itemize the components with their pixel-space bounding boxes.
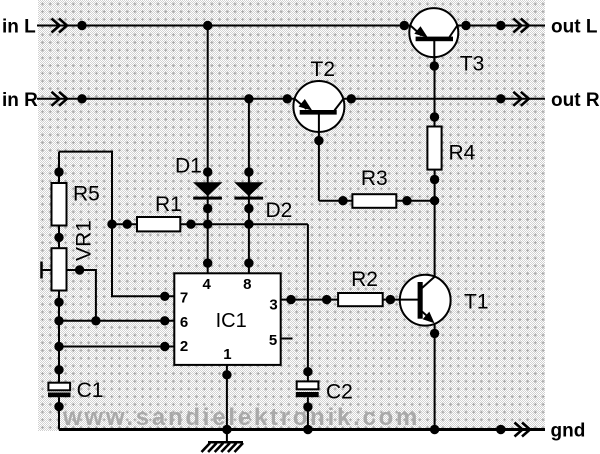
wire R3 row [319, 200, 435, 202]
capacitor C1 [48, 383, 71, 398]
wire R4 top lead [434, 57, 436, 127]
node C2 / gnd [303, 425, 312, 434]
wire C2 bottom to gnd [307, 397, 309, 429]
node gnd out [496, 425, 505, 434]
wire R1 row [112, 223, 308, 225]
wire R5-top to pin7 loop [59, 152, 174, 297]
transistor T3 [409, 8, 458, 66]
svg-text:www.sandielektronik.com: www.sandielektronik.com [62, 404, 420, 431]
node T1 / gnd [430, 425, 439, 434]
svg-text:C1: C1 [77, 379, 104, 402]
node C1 bottom [54, 402, 63, 411]
svg-text:8: 8 [243, 276, 251, 293]
node R1 row left [107, 220, 116, 229]
node VR1 bottom [54, 298, 63, 307]
node T3 emitter [400, 21, 409, 30]
svg-text:R5: R5 [73, 183, 100, 206]
wire R4 bottom to T1 collector [434, 170, 436, 277]
node in R / D2 [244, 94, 253, 103]
node pin6 [160, 316, 169, 325]
node C1 top [54, 365, 63, 374]
resistor R4 [427, 127, 441, 170]
resistor R2 [338, 293, 383, 306]
wire R5 to VR1 [58, 226, 60, 249]
chevron in L [52, 19, 68, 33]
svg-text:in R: in R [2, 90, 38, 111]
svg-text:3: 3 [269, 296, 277, 313]
svg-text:T2: T2 [311, 58, 336, 81]
svg-text:7: 7 [180, 289, 188, 306]
node R5 top [54, 167, 63, 176]
chevron out L [513, 19, 529, 33]
node D1 anode [203, 167, 212, 176]
potentiometer VR1 [52, 248, 67, 290]
diode D2 [234, 182, 263, 199]
svg-text:VR1: VR1 [73, 220, 96, 261]
svg-text:D2: D2 [266, 199, 293, 222]
node C2 top [303, 367, 312, 376]
chevron in R [52, 92, 68, 106]
node T2 base [314, 136, 323, 145]
svg-text:T1: T1 [464, 291, 489, 314]
node wiper / pin6 row [91, 316, 100, 325]
node R3 left lead [338, 196, 347, 205]
node pin1 / gnd [222, 425, 231, 434]
node in L 1 [77, 21, 86, 30]
svg-text:R1: R1 [155, 193, 182, 216]
svg-text:2: 2 [180, 338, 188, 355]
svg-text:in L: in L [2, 17, 36, 38]
node R3 / R4 junction [430, 196, 439, 205]
node pin7 [160, 292, 169, 301]
node pin8 [244, 258, 253, 267]
node C2 bottom [303, 402, 312, 411]
svg-text:4: 4 [203, 276, 212, 293]
wire VR1 bottom rail to C1 [58, 291, 60, 383]
wire node to C2 [307, 224, 309, 381]
resistor R5 [52, 183, 67, 226]
node R2 left lead [322, 295, 331, 304]
svg-text:5: 5 [269, 332, 277, 349]
wire pin2 row [59, 346, 174, 348]
wire in R rail [37, 98, 545, 100]
wire gnd rail [59, 428, 545, 431]
wire pin1 to ground [226, 365, 228, 442]
wire R5 top lead [58, 152, 60, 183]
transistor T1 [400, 275, 451, 326]
op-amp IC1 box [174, 273, 280, 365]
node T2 emitter [283, 94, 292, 103]
node R4 top lead [430, 112, 439, 121]
wire pin5 stub [281, 338, 293, 340]
node T1 emitter [430, 329, 439, 338]
node rail pin6 [54, 316, 63, 325]
node pin4 [203, 258, 212, 267]
capacitor C2 [296, 381, 319, 397]
svg-text:out L: out L [551, 17, 598, 38]
wire C1 bottom to gnd [58, 397, 60, 429]
node T2 collector [347, 94, 356, 103]
svg-text:T3: T3 [460, 53, 485, 76]
svg-text:gnd: gnd [551, 421, 586, 442]
node pin1 lead [222, 370, 231, 379]
node in R 1 [77, 94, 86, 103]
resistor R3 [352, 194, 396, 208]
wire D2 vertical [248, 99, 250, 273]
wire pin6 row [59, 320, 174, 322]
svg-text:R3: R3 [361, 167, 388, 190]
svg-text:D1: D1 [175, 155, 202, 178]
node R1 right lead [186, 220, 195, 229]
node D1 / R1 row [203, 220, 212, 229]
node R3 right lead [402, 196, 411, 205]
node pin3 [286, 295, 295, 304]
svg-text:1: 1 [223, 346, 231, 363]
resistor R1 [137, 217, 180, 231]
node T3 base [430, 61, 439, 70]
wire pin3 / R2 row [281, 299, 400, 301]
wire in L rail [37, 25, 545, 27]
node out L [496, 21, 505, 30]
chevron out R [513, 92, 529, 106]
VR1 wiper T mark [40, 262, 43, 279]
node D2 cathode [244, 204, 253, 213]
svg-text:6: 6 [180, 314, 188, 331]
svg-text:C2: C2 [326, 380, 353, 403]
node pin2 [160, 342, 169, 351]
node in L / D1 [203, 21, 212, 30]
node R5 bottom [54, 233, 63, 242]
wire VR1 wiper to pin6 row [67, 270, 96, 321]
ground [202, 442, 244, 452]
node D2 / R1 row [244, 220, 253, 229]
transistor T2 [293, 81, 344, 201]
node R2 right lead [386, 295, 395, 304]
node R1 left lead [123, 220, 132, 229]
node D1 cathode [203, 204, 212, 213]
svg-text:out R: out R [551, 90, 600, 111]
svg-text:R2: R2 [351, 268, 378, 291]
wire T1 emitter to gnd [434, 324, 436, 430]
svg-text:IC1: IC1 [216, 310, 247, 332]
node out R [496, 94, 505, 103]
node VR1 wiper [75, 265, 84, 274]
diode D1 [193, 182, 222, 199]
chevron gnd [515, 423, 531, 437]
node rail pin2 [54, 342, 63, 351]
node D2 anode [244, 167, 253, 176]
node R4 bottom lead [430, 175, 439, 184]
svg-text:R4: R4 [449, 142, 476, 165]
node T3 collector [461, 21, 470, 30]
wire D1 vertical [207, 26, 209, 274]
